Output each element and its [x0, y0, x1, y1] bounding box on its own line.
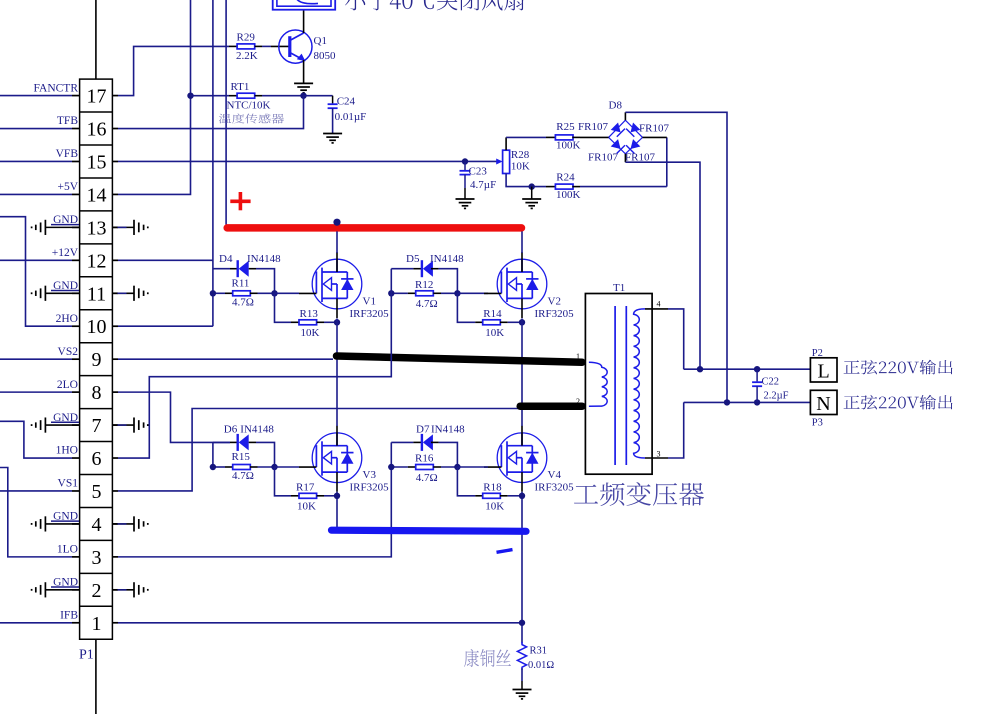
- svg-text:C23: C23: [469, 166, 488, 178]
- wire bridge bottom to L line: [625, 162, 700, 369]
- wire gate node to V3: [275, 466, 300, 468]
- diode D4: [213, 268, 230, 270]
- diode D7: [391, 441, 413, 443]
- pin 17 stub left: [72, 95, 80, 97]
- pin 14 stub right: [112, 193, 118, 195]
- svg-text:2.2µF: 2.2µF: [764, 391, 789, 402]
- wire 2LO to D6: [118, 392, 230, 442]
- svg-text:2: 2: [576, 397, 580, 406]
- transistor Q1 base pin: [271, 45, 290, 47]
- svg-text:4.7Ω: 4.7Ω: [232, 470, 254, 482]
- svg-text:4.7Ω: 4.7Ω: [416, 298, 438, 310]
- svg-text:7: 7: [92, 415, 102, 437]
- red positive bus bar: [227, 224, 521, 232]
- wire gate node to V1: [275, 292, 300, 294]
- node C23 tap: [462, 158, 468, 164]
- svg-text:10K: 10K: [485, 327, 504, 339]
- node C22 top: [754, 366, 760, 372]
- svg-text:R31: R31: [530, 646, 548, 657]
- svg-text:V2: V2: [548, 296, 561, 308]
- node bridge/N: [724, 399, 730, 405]
- text 正弦220V输出 lower: [844, 395, 953, 410]
- pin 11 stub right: [112, 292, 118, 294]
- pin 15 stub right: [112, 160, 118, 162]
- resistor R13: [275, 293, 292, 322]
- wire bridge right vertical: [666, 137, 668, 186]
- svg-text:3: 3: [92, 547, 102, 569]
- resistor R24: [546, 186, 556, 188]
- mosfet V2: [484, 252, 547, 318]
- svg-text:N: N: [816, 393, 830, 415]
- pin 7 stub right: [112, 424, 118, 426]
- wire FANCTR left: [0, 95, 72, 97]
- wire FANCTR to R29: [118, 46, 229, 95]
- ground left pin 4: [45, 523, 79, 525]
- node V1 source/R13: [334, 319, 340, 325]
- wire V3 source to blue bus: [336, 492, 338, 530]
- resistor R11: [213, 292, 225, 294]
- node V3 gate: [271, 464, 277, 470]
- svg-text:VS2: VS2: [58, 346, 79, 358]
- wire IFB left: [0, 622, 72, 624]
- ground C23: [456, 199, 475, 208]
- svg-text:D6: D6: [224, 424, 238, 436]
- resistor R18: [457, 467, 475, 496]
- ground left pin 13: [45, 226, 79, 228]
- pin 3 stub right: [112, 556, 118, 558]
- resistor R12: [391, 292, 408, 294]
- pin 9 stub right: [112, 358, 118, 360]
- svg-text:R13: R13: [300, 308, 319, 320]
- text 正弦220V输出 upper: [844, 360, 953, 375]
- svg-text:IFB: IFB: [60, 609, 78, 621]
- wire R29 to Q1 base: [262, 45, 271, 47]
- svg-text:D8: D8: [609, 100, 623, 112]
- diode D6: [213, 441, 230, 443]
- svg-text:12: 12: [87, 250, 107, 272]
- pin 12 stub left: [72, 259, 80, 261]
- svg-text:2HO: 2HO: [56, 313, 78, 325]
- pin 4 stub left: [72, 523, 80, 525]
- text 温度传感器: [219, 113, 284, 123]
- resistor R14: [457, 293, 475, 322]
- svg-text:P3: P3: [812, 418, 823, 429]
- ground right pin 4: [112, 523, 134, 525]
- connector P1: [80, 79, 113, 639]
- node V4 gate: [454, 464, 460, 470]
- text 工频变压器: [574, 482, 704, 506]
- wire R28 bottom to R24: [506, 174, 546, 187]
- node C22 bottom: [754, 399, 760, 405]
- svg-text:9: 9: [92, 349, 102, 371]
- svg-text:0.01µF: 0.01µF: [335, 111, 367, 123]
- svg-text:4: 4: [657, 300, 661, 309]
- svg-text:0.01Ω: 0.01Ω: [528, 660, 554, 671]
- red + symbol: [230, 200, 250, 204]
- black bus VS2 to transformer pin1: [337, 356, 583, 362]
- wire N line: [684, 401, 811, 403]
- pin 16 stub left: [72, 128, 80, 130]
- svg-text:+5V: +5V: [57, 181, 78, 193]
- wire VS1 left: [0, 490, 72, 492]
- pin 6 stub right: [112, 457, 118, 459]
- resistor R16: [391, 466, 408, 468]
- wire R28 to R25: [506, 136, 546, 138]
- svg-text:10K: 10K: [485, 501, 504, 513]
- ground left pin 2: [45, 589, 79, 591]
- pin 10 stub left: [72, 325, 80, 327]
- resistor R31 (zigzag): [517, 642, 526, 670]
- wire bridge top to N line: [625, 112, 727, 402]
- ground right pin 7: [112, 424, 134, 426]
- wire RT1 to node: [262, 95, 304, 97]
- wire L line: [684, 368, 811, 370]
- ground left pin 11: [45, 292, 79, 294]
- svg-text:10K: 10K: [511, 160, 530, 172]
- svg-text:1LO: 1LO: [57, 544, 78, 556]
- connector P3: [810, 390, 837, 414]
- svg-text:R29: R29: [237, 32, 256, 44]
- node V2 gate: [454, 290, 460, 296]
- svg-text:IRF3205: IRF3205: [535, 308, 575, 320]
- svg-text:R15: R15: [232, 451, 251, 463]
- ground right pin 13: [112, 226, 134, 228]
- svg-text:5: 5: [92, 481, 102, 503]
- minus symbol: [497, 550, 513, 553]
- potentiometer R28: [496, 158, 502, 164]
- svg-text:IN4148: IN4148: [430, 253, 464, 265]
- wire gate node to V2: [457, 292, 488, 294]
- wire D4 to gate node: [256, 269, 275, 294]
- wire bus2 to V4 drain: [521, 410, 523, 426]
- wire bridge right pin: [643, 136, 667, 138]
- pin 5 stub left: [72, 490, 80, 492]
- node rail/R11: [210, 290, 216, 296]
- ground R28/R24 node: [522, 199, 541, 208]
- svg-text:P1: P1: [79, 648, 94, 663]
- capacitor C24: [328, 96, 338, 134]
- svg-text:IN4148: IN4148: [431, 424, 465, 436]
- ground right pin 11: [112, 292, 134, 294]
- wire 1HO left loop: [0, 421, 72, 458]
- svg-text:R18: R18: [483, 482, 502, 494]
- wire IFB to R31: [118, 622, 522, 624]
- wire rail D6/R15: [212, 442, 214, 467]
- wire rail x190 from top: [190, 0, 192, 96]
- ground left pin 7: [45, 424, 79, 426]
- pin 6 stub left: [72, 457, 80, 459]
- svg-text:4.7Ω: 4.7Ω: [232, 296, 254, 308]
- pin 8 stub left: [72, 391, 80, 393]
- svg-text:R25: R25: [556, 121, 575, 133]
- wire D5 to gate node: [439, 269, 458, 294]
- svg-text:17: 17: [87, 86, 107, 108]
- black bus VS1 to transformer pin2: [520, 402, 582, 410]
- wire 1LO left loop: [0, 468, 72, 557]
- pin 13 stub right: [112, 226, 118, 228]
- wire bridge top pin: [624, 112, 626, 120]
- mosfet V1: [299, 252, 362, 318]
- wire +5V to RT1: [118, 96, 191, 195]
- node rail/R16: [388, 464, 394, 470]
- svg-text:R14: R14: [483, 308, 502, 320]
- svg-text:P2: P2: [812, 348, 823, 359]
- pin 13 stub left: [72, 226, 80, 228]
- svg-text:C22: C22: [762, 377, 780, 388]
- svg-text:8: 8: [92, 382, 102, 404]
- svg-text:2LO: 2LO: [57, 379, 78, 391]
- node rail/R15: [210, 464, 216, 470]
- wire R31 to ground: [521, 668, 523, 681]
- text fan note 小于40℃关闭风扇: [345, 0, 524, 10]
- node V1 drain on bus: [333, 219, 340, 226]
- wire 2HO to rail: [118, 325, 213, 327]
- svg-text:11: 11: [87, 283, 106, 305]
- wire rail x213 from top: [212, 0, 214, 326]
- svg-text:R11: R11: [232, 278, 250, 290]
- svg-text:3: 3: [657, 450, 661, 459]
- pin 8 stub right: [112, 391, 118, 393]
- pin 1 stub left: [72, 622, 80, 624]
- wire 1LO to V4 gate rail: [118, 467, 391, 557]
- svg-text:RT1: RT1: [231, 81, 250, 93]
- node rail/R12: [388, 290, 394, 296]
- wire D6 to gate node: [256, 442, 275, 467]
- wire D7 to gate node: [439, 442, 458, 467]
- wire bridge bottom pin: [624, 154, 626, 162]
- wire Q1 collector to fan: [303, 10, 305, 33]
- svg-text:VS1: VS1: [58, 478, 79, 490]
- svg-text:D4: D4: [219, 253, 233, 265]
- node R28/R24/ground: [529, 183, 535, 189]
- svg-text:10: 10: [87, 316, 107, 338]
- svg-text:V3: V3: [363, 469, 377, 481]
- svg-text:4: 4: [92, 514, 102, 536]
- wire T1 pin3: [645, 457, 668, 459]
- capacitor C22: [752, 369, 762, 402]
- wire VS2 left: [0, 358, 72, 360]
- svg-text:+12V: +12V: [52, 247, 79, 259]
- transistor Q1: [279, 30, 312, 63]
- text 康铜丝: [464, 649, 511, 667]
- connector P2: [810, 358, 837, 382]
- svg-text:IN4148: IN4148: [247, 253, 281, 265]
- svg-text:FANCTR: FANCTR: [33, 82, 78, 94]
- svg-text:FR107: FR107: [578, 121, 608, 133]
- wire rail D7: [390, 442, 392, 467]
- ground right pin 2: [112, 589, 134, 591]
- wire P1 bottom lead: [95, 639, 97, 714]
- node RT1/TFB/C24: [300, 93, 306, 99]
- wire +12V left: [0, 259, 72, 261]
- wire T1 pin4: [645, 308, 668, 310]
- svg-text:FR107: FR107: [588, 151, 618, 163]
- node bridge/L: [697, 366, 703, 372]
- svg-text:16: 16: [87, 119, 107, 141]
- svg-text:IRF3205: IRF3205: [350, 308, 390, 320]
- svg-text:8050: 8050: [314, 50, 337, 62]
- svg-text:VFB: VFB: [56, 148, 79, 160]
- pin 3 stub left: [72, 556, 80, 558]
- wire +5V left: [0, 193, 72, 195]
- svg-text:L: L: [818, 360, 830, 382]
- node V1 gate: [271, 290, 277, 296]
- wire V4 source to R31: [521, 492, 523, 644]
- pin 4 stub right: [112, 523, 118, 525]
- svg-text:100K: 100K: [556, 139, 581, 151]
- svg-text:V1: V1: [363, 296, 376, 308]
- mosfet V3: [299, 426, 362, 492]
- pin 2 stub left: [72, 589, 80, 591]
- svg-text:V4: V4: [548, 469, 562, 481]
- pin 15 stub left: [72, 160, 80, 162]
- pin 17 stub right: [112, 95, 118, 97]
- pin 12 stub right: [112, 259, 118, 261]
- thermistor RT1: [190, 95, 229, 97]
- wire +12V to rail: [118, 259, 213, 261]
- wire rail x226 to red bus: [225, 0, 227, 225]
- wire 1HO to V2 gate rail: [118, 293, 391, 458]
- transformer T1: [585, 294, 652, 475]
- resistor R25: [546, 136, 556, 138]
- svg-text:1: 1: [92, 613, 102, 635]
- wire bridge left pin: [580, 136, 609, 138]
- pin 11 stub left: [72, 292, 80, 294]
- node +5V/RT1 junction: [187, 93, 193, 99]
- svg-text:R16: R16: [415, 453, 434, 465]
- svg-text:2.2K: 2.2K: [236, 50, 258, 62]
- wire red bus to V2 drain: [521, 231, 523, 253]
- svg-text:10K: 10K: [301, 327, 320, 339]
- resistor R15: [213, 466, 225, 468]
- wire 2HO left loop: [0, 217, 72, 327]
- pin 7 stub left: [72, 424, 80, 426]
- node V2 source/R14: [519, 319, 525, 325]
- wire V2 source down: [521, 318, 523, 403]
- pin 1 stub right: [112, 622, 118, 624]
- wire VFB to R28: [118, 160, 497, 162]
- svg-text:FR107: FR107: [639, 123, 669, 135]
- svg-text:1: 1: [576, 352, 580, 361]
- wire R24 to bridge right: [580, 186, 667, 188]
- wire pin4 to L line: [668, 309, 684, 369]
- diode bridge D8: [609, 120, 643, 154]
- pin 14 stub left: [72, 193, 80, 195]
- svg-text:C24: C24: [337, 96, 356, 108]
- svg-text:1HO: 1HO: [56, 445, 78, 457]
- svg-text:4.7Ω: 4.7Ω: [416, 472, 438, 484]
- wire bus1 to V3 drain: [336, 359, 338, 426]
- mosfet V4: [484, 426, 547, 492]
- wire P1 top lead: [95, 0, 97, 79]
- diode D5: [391, 268, 413, 270]
- wire VS1 to V2 source: [118, 409, 519, 491]
- wire node to C24: [304, 95, 333, 97]
- node V3 source/R17: [334, 493, 340, 499]
- svg-text:NTC/10K: NTC/10K: [227, 99, 271, 111]
- ground Q1 emitter: [294, 83, 313, 92]
- wire rail D5: [390, 269, 392, 294]
- svg-text:15: 15: [87, 151, 107, 173]
- svg-text:R17: R17: [296, 482, 315, 494]
- wire TFB to node: [118, 96, 304, 129]
- svg-text:R24: R24: [556, 171, 575, 183]
- wire V1 source to bus1: [336, 318, 338, 356]
- ground C24: [323, 134, 342, 143]
- blue negative bus bar: [332, 530, 527, 531]
- svg-text:10K: 10K: [297, 501, 316, 513]
- pin 5 stub right: [112, 490, 118, 492]
- wire VFB left: [0, 160, 72, 162]
- svg-text:TFB: TFB: [57, 115, 78, 127]
- svg-text:T1: T1: [613, 282, 625, 294]
- wire Q1 emitter to ground: [303, 60, 305, 83]
- svg-text:IN4148: IN4148: [240, 424, 274, 436]
- svg-text:R12: R12: [415, 279, 433, 291]
- resistor R17: [275, 467, 292, 496]
- svg-text:2: 2: [92, 580, 102, 602]
- node IFB/R31: [519, 620, 525, 626]
- pin 16 stub right: [112, 128, 118, 130]
- svg-text:100K: 100K: [556, 189, 581, 201]
- pin 2 stub right: [112, 589, 118, 591]
- svg-text:6: 6: [92, 448, 102, 470]
- svg-text:IRF3205: IRF3205: [535, 482, 575, 494]
- wire gate node to V4: [457, 466, 488, 468]
- svg-text:4.7µF: 4.7µF: [470, 179, 496, 191]
- node V4 source/R18: [519, 493, 525, 499]
- fan symbol: [273, 0, 336, 10]
- wire 2LO left: [0, 391, 72, 393]
- wire pin3 to N line: [668, 402, 684, 458]
- pin 9 stub left: [72, 358, 80, 360]
- pin 10 stub right: [112, 325, 118, 327]
- svg-text:IRF3205: IRF3205: [350, 482, 390, 494]
- wire VS2: [118, 358, 333, 360]
- resistor R29: [229, 45, 237, 47]
- ground R31: [513, 690, 532, 699]
- svg-text:14: 14: [87, 184, 107, 206]
- svg-text:13: 13: [87, 217, 107, 239]
- wire R28 top lead: [505, 137, 507, 150]
- svg-text:D7: D7: [416, 424, 430, 436]
- svg-text:Q1: Q1: [314, 35, 327, 47]
- wire TFB left: [0, 128, 72, 130]
- wire red bus to V1 drain: [336, 231, 338, 253]
- capacitor C23: [460, 161, 471, 199]
- svg-text:D5: D5: [406, 253, 420, 265]
